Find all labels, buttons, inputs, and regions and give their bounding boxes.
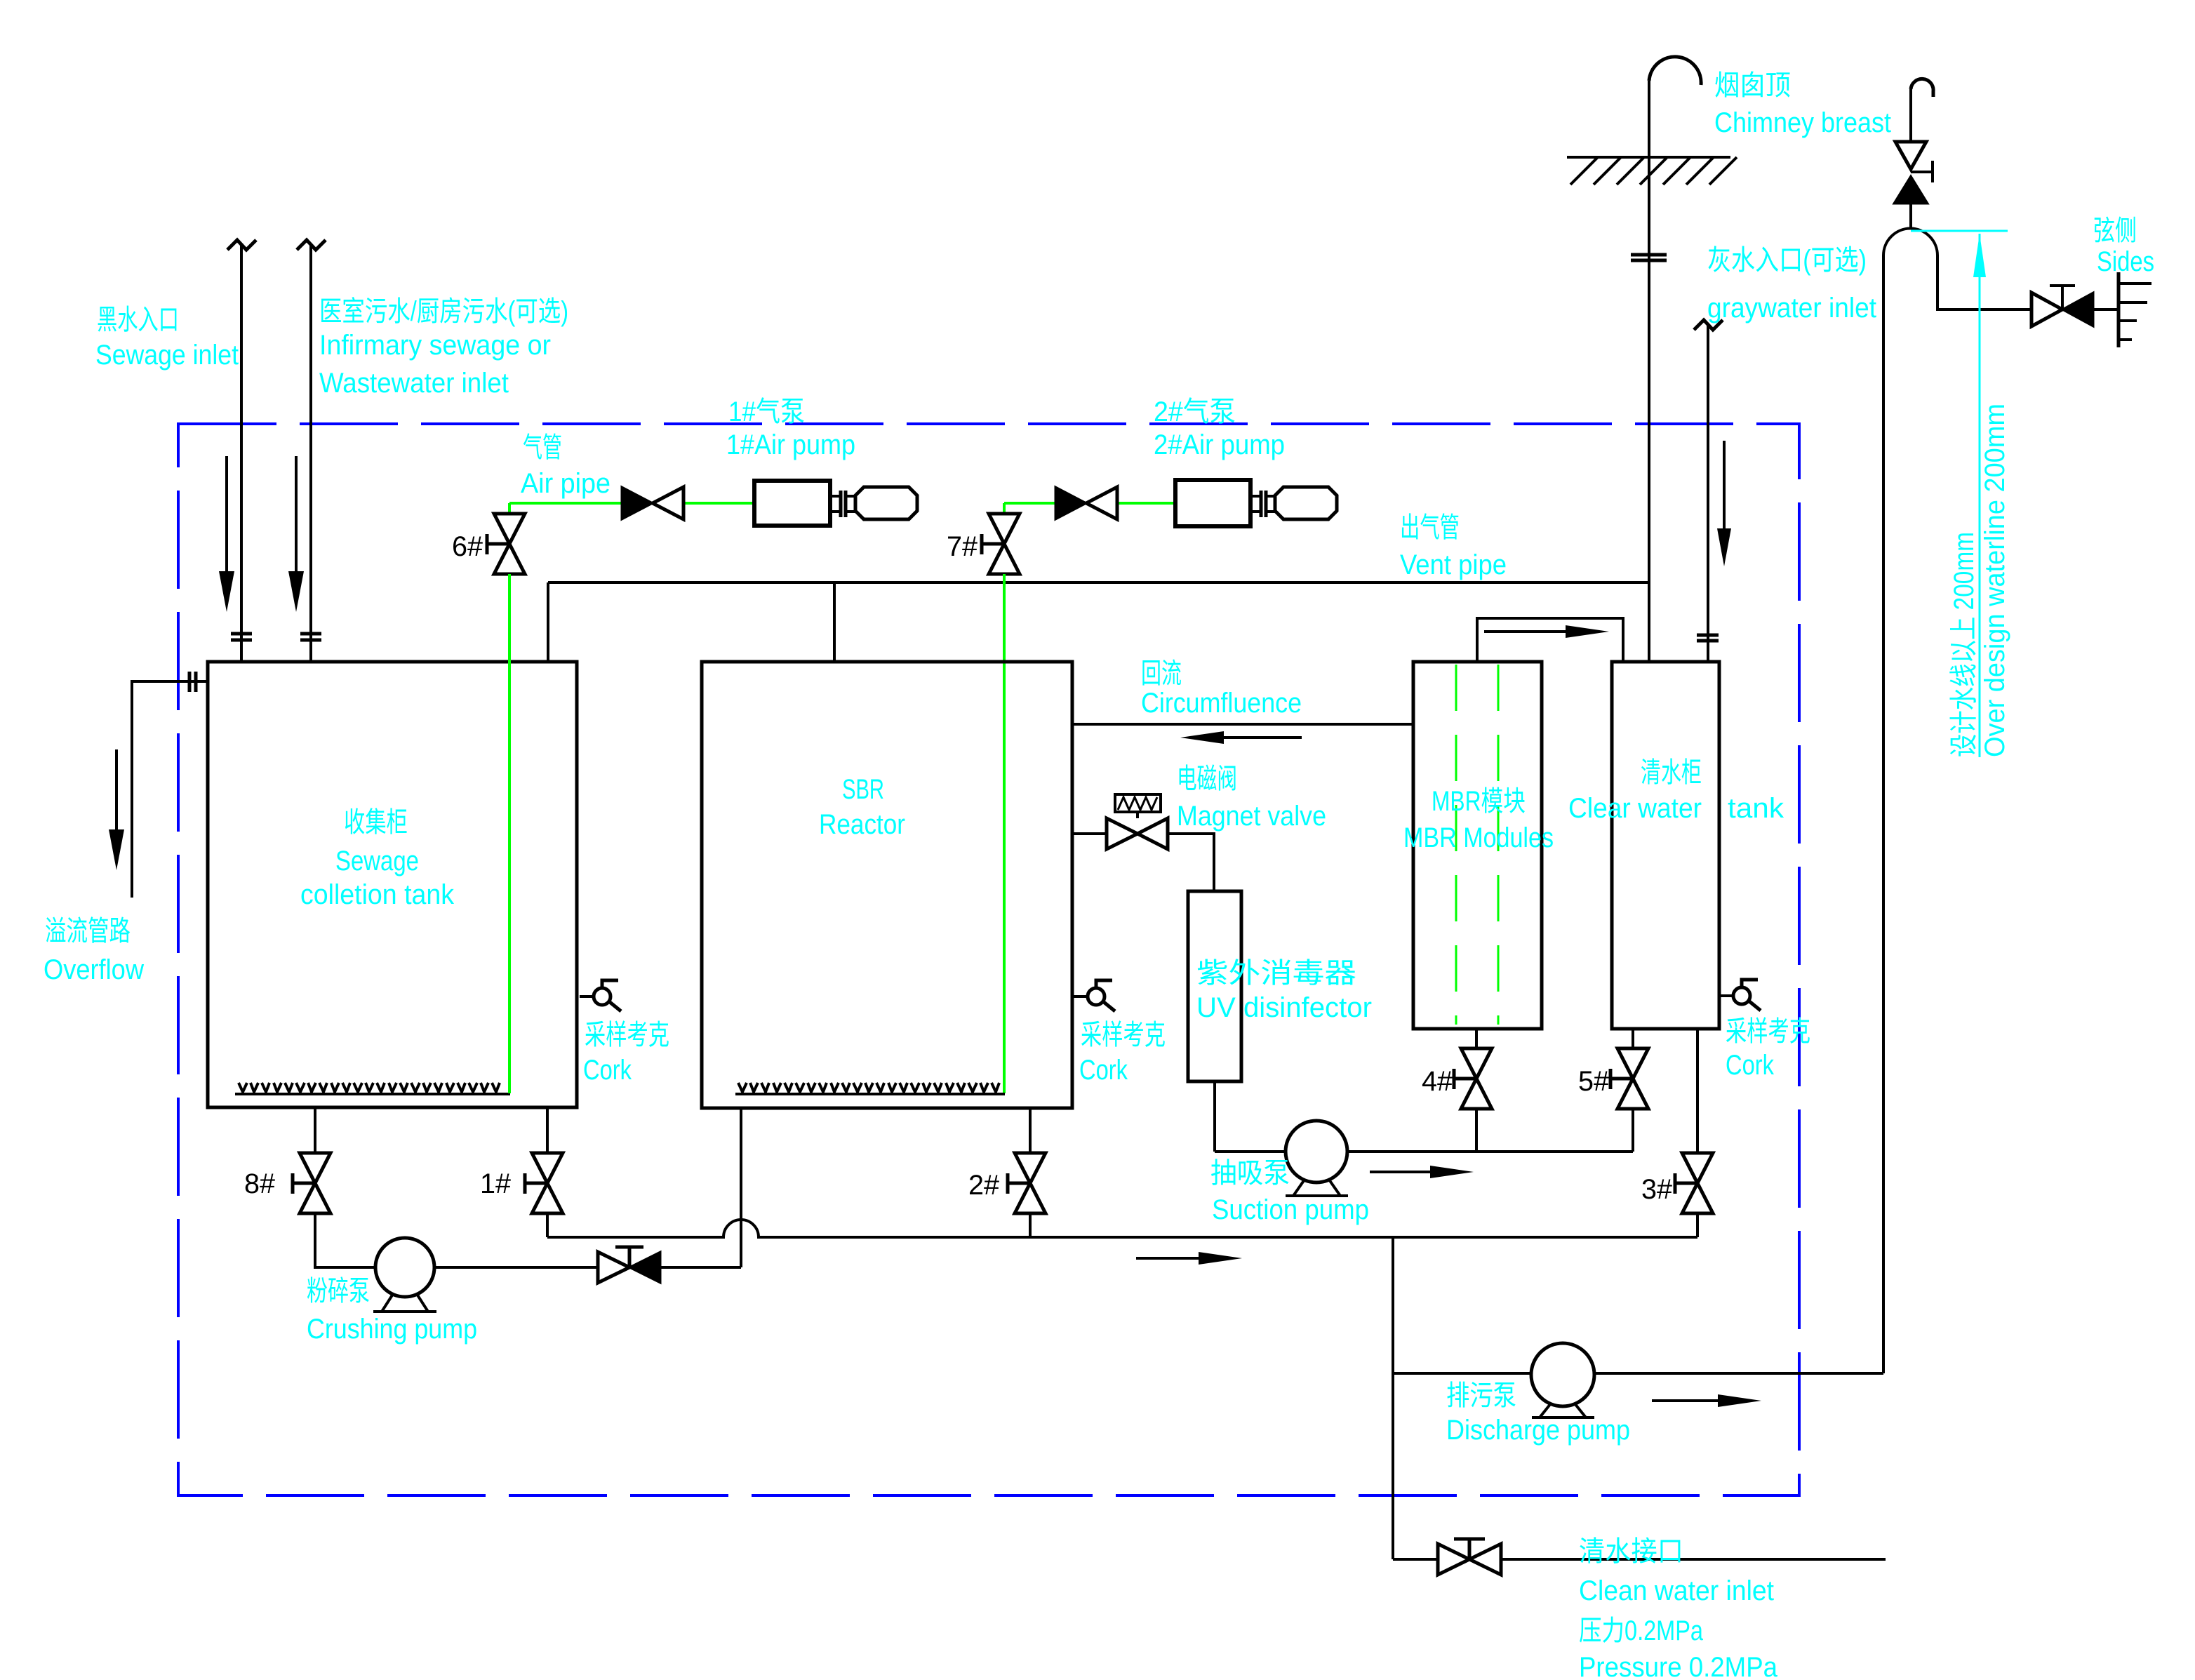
svg-text:灰水入口(可选): 灰水入口(可选) <box>1707 245 1867 276</box>
valve 7# <box>989 514 1020 574</box>
svg-text:Circumfluence: Circumfluence <box>1141 688 1302 719</box>
1# air pump coupling <box>830 496 855 512</box>
pipe: sewage inlet (black water) <box>240 246 243 662</box>
svg-text:SBR: SBR <box>842 774 884 805</box>
pipe: discharge drop from main header <box>1392 1237 1394 1559</box>
valve 3# <box>1682 1153 1713 1213</box>
svg-text:粉碎泵: 粉碎泵 <box>307 1276 370 1307</box>
discharge pump <box>1531 1343 1594 1406</box>
svg-text:Discharge pump: Discharge pump <box>1446 1415 1630 1446</box>
diffuser strip at bottom of collection tank <box>235 1093 510 1095</box>
crushing pump <box>375 1238 434 1297</box>
svg-text:Wastewater inlet: Wastewater inlet <box>319 368 509 399</box>
svg-text:1#: 1# <box>480 1168 512 1199</box>
sampling cock at x=2450 <box>1719 994 1733 997</box>
svg-text:2#Air pump: 2#Air pump <box>1154 429 1285 460</box>
valve 4# riser <box>1475 1029 1478 1152</box>
tank: sewage collection tank <box>208 662 577 1107</box>
flow arrow after suction pump <box>1370 1171 1435 1173</box>
equipment boundary (blue dashed border) <box>178 424 1799 1495</box>
tank: MBR modules <box>1413 662 1542 1029</box>
pipe: SBR feed drop (from crushing loop) <box>740 1108 742 1267</box>
pipe: graywater inlet <box>1707 326 1709 662</box>
svg-text:医室污水/厨房污水(可选): 医室污水/厨房污水(可选) <box>319 296 568 327</box>
svg-text:Cork: Cork <box>1726 1050 1775 1081</box>
ship side discharge valve (right wedge filled) <box>2031 293 2062 326</box>
flow arrow on circumfluence (left) <box>1214 736 1302 739</box>
pipe: suction line <box>1215 1150 1633 1153</box>
svg-text:Clean water inlet: Clean water inlet <box>1579 1575 1774 1606</box>
diffuser strip at bottom of SBR <box>735 1093 1005 1095</box>
flange on wastewater inlet pipe <box>300 634 321 640</box>
flange on sewage inlet pipe <box>231 634 252 640</box>
svg-text:电磁阀: 电磁阀 <box>1177 764 1237 794</box>
pipe: magnet valve to UV disinfector <box>1168 834 1214 891</box>
svg-text:1#气泵: 1#气泵 <box>728 396 805 427</box>
valve 4# <box>1461 1048 1492 1109</box>
svg-text:收集柜: 收集柜 <box>344 807 408 838</box>
svg-text:采样考克: 采样考克 <box>1081 1020 1166 1051</box>
svg-text:2#: 2# <box>968 1170 1000 1201</box>
check valve after crushing pump (right wedge filled) <box>598 1252 629 1283</box>
svg-text:Suction pump: Suction pump <box>1212 1194 1369 1225</box>
pipe: crushing pump discharge <box>434 1266 741 1269</box>
pipe: chimney vent riser <box>1648 81 1650 662</box>
flow arrow after discharge pump <box>1652 1399 1721 1402</box>
pipe: overboard riser <box>1882 255 1885 1373</box>
ship side (hull) symbol <box>2117 272 2121 347</box>
svg-text:Air pipe: Air pipe <box>521 468 611 499</box>
pipe: infirmary/kitchen wastewater inlet <box>309 246 312 662</box>
svg-text:2#气泵: 2#气泵 <box>1154 396 1236 427</box>
pipe: MBR outlet loop to clear water tank <box>1477 618 1623 662</box>
flow arrow on main header <box>1136 1257 1201 1260</box>
pipe: main transfer header with crossover bridge <box>547 1220 1697 1237</box>
svg-text:采样考克: 采样考克 <box>1726 1016 1810 1047</box>
valve 2# <box>1015 1153 1046 1213</box>
svg-text:MBR Modules: MBR Modules <box>1403 822 1554 853</box>
valve on 2# air pump line (left wedge filled) <box>1055 487 1086 519</box>
svg-text:7#: 7# <box>947 531 978 562</box>
valve 6# <box>494 514 525 574</box>
svg-text:UV disinfector: UV disinfector <box>1196 992 1372 1023</box>
svg-text:8#: 8# <box>244 1168 276 1199</box>
svg-text:Cork: Cork <box>1079 1055 1128 1086</box>
svg-text:Cork: Cork <box>583 1055 632 1086</box>
chimney breast hook <box>1911 79 1933 97</box>
svg-text:tank: tank <box>1728 793 1784 824</box>
flow arrow on overflow <box>115 749 118 831</box>
tank: SBR reactor <box>702 662 1072 1108</box>
tank: clear water tank <box>1612 662 1719 1029</box>
svg-text:6#: 6# <box>452 531 483 562</box>
valve 1# riser from collection tank <box>546 1107 549 1237</box>
svg-text:Overflow: Overflow <box>44 954 144 985</box>
svg-text:抽吸泵: 抽吸泵 <box>1210 1158 1290 1189</box>
suction pump <box>1286 1121 1347 1182</box>
break symbol on wastewater inlet pipe <box>297 240 326 250</box>
UV disinfector vessel <box>1188 891 1241 1081</box>
break symbol on sewage inlet pipe <box>227 240 256 250</box>
svg-text:Sewage: Sewage <box>335 846 419 876</box>
svg-text:Pressure 0.2MPa: Pressure 0.2MPa <box>1579 1652 1778 1680</box>
green drop to valve 7# <box>1003 503 1006 514</box>
vent riser from collection tank <box>547 582 549 662</box>
2# air pump coupling <box>1250 496 1275 512</box>
svg-text:回流: 回流 <box>1141 658 1182 689</box>
svg-text:采样考克: 采样考克 <box>585 1020 669 1051</box>
svg-text:排污泵: 排污泵 <box>1446 1380 1516 1411</box>
svg-text:清水柜: 清水柜 <box>1641 757 1702 788</box>
pipe: UV disinfector outlet <box>1213 1081 1216 1152</box>
svg-text:溢流管路: 溢流管路 <box>45 916 131 947</box>
vent riser from SBR reactor <box>833 582 836 662</box>
svg-text:Reactor: Reactor <box>819 809 905 840</box>
svg-text:清水接口: 清水接口 <box>1579 1536 1683 1567</box>
flow arrow on graywater inlet <box>1723 441 1726 530</box>
valve 3# riser from clear water tank <box>1696 1029 1699 1237</box>
valve 8# <box>300 1153 331 1213</box>
flow arrow into tank (wastewater inlet) <box>295 456 298 573</box>
valve 2# riser from SBR <box>1029 1108 1032 1237</box>
svg-text:MBR模块: MBR模块 <box>1432 786 1526 817</box>
svg-text:黑水入口: 黑水入口 <box>97 305 179 335</box>
valve 5# <box>1617 1048 1648 1109</box>
clean water inlet valve <box>1438 1544 1501 1575</box>
vented loop at top of riser <box>1883 228 1937 255</box>
pipe: clean water inlet line <box>1393 1558 1886 1561</box>
chimney top hook <box>1649 57 1701 85</box>
svg-text:弦侧: 弦侧 <box>2093 215 2137 246</box>
svg-text:Over design waterline 200mm: Over design waterline 200mm <box>1980 404 2010 757</box>
svg-text:Infirmary sewage or: Infirmary sewage or <box>319 330 551 361</box>
svg-text:气管: 气管 <box>523 432 562 463</box>
green drop to valve 6# <box>508 503 511 514</box>
1# air pump body <box>754 481 830 526</box>
1# air pump silencer (octagon) <box>855 487 917 519</box>
svg-text:3#: 3# <box>1641 1174 1673 1205</box>
2# air pump silencer (octagon) <box>1275 487 1337 519</box>
svg-text:5#: 5# <box>1578 1066 1610 1097</box>
flow arrow into tank (sewage inlet) <box>225 456 228 573</box>
flange on overflow pipe <box>189 672 196 692</box>
deck line at chimney penetration <box>1567 156 1730 159</box>
green air drop pipe into collection tank <box>508 574 511 1093</box>
svg-text:烟囱顶: 烟囱顶 <box>1714 70 1791 101</box>
svg-text:graywater inlet: graywater inlet <box>1707 293 1876 324</box>
waterline dimension line with arrow (cyan) <box>1979 234 1981 757</box>
svg-text:1#Air pump: 1#Air pump <box>726 429 855 460</box>
MBR membranes (green dashed) <box>1456 665 1498 1025</box>
valve 5# riser <box>1632 1029 1634 1152</box>
pipe: overboard line to ship side <box>1937 255 2119 309</box>
pipe: air pipe to SBR (green) <box>1004 502 1175 505</box>
design waterline tick (cyan) <box>1911 230 2008 232</box>
svg-text:出气管: 出气管 <box>1400 512 1460 543</box>
pipe: discharge pump line <box>1393 1372 1883 1375</box>
vent riser drop into clear water tank <box>1648 582 1650 662</box>
svg-text:Vent pipe: Vent pipe <box>1400 549 1507 580</box>
svg-text:Crushing pump: Crushing pump <box>307 1314 477 1345</box>
magnet valve <box>1107 818 1168 849</box>
svg-text:Chimney breast: Chimney breast <box>1714 107 1891 138</box>
svg-text:压力0.2MPa: 压力0.2MPa <box>1579 1615 1704 1646</box>
chimney breast valve (screw-down non-return) <box>1909 204 1912 229</box>
pipe: air pipe to collection tank (green) <box>509 502 754 505</box>
valve 8# riser from collection tank <box>315 1107 375 1267</box>
deck hatching <box>1570 157 1737 185</box>
pipe: circumfluence return line <box>1074 723 1413 726</box>
pipe: overflow line from collection tank <box>132 681 208 898</box>
valve on 1# air pump line (left wedge filled) <box>622 487 653 519</box>
green air drop pipe into SBR <box>1003 574 1006 1093</box>
pipe: SBR outlet to magnet valve <box>1074 832 1107 835</box>
flow arrow on MBR outlet <box>1484 630 1568 633</box>
valve 1# <box>532 1153 563 1213</box>
sampling cock at x=1530 <box>1074 995 1088 998</box>
pipe: vent pipe header <box>548 581 1649 584</box>
svg-text:colletion tank: colletion tank <box>300 879 455 910</box>
svg-text:Clear water: Clear water <box>1568 793 1702 824</box>
svg-text:设计水线以上 200mm: 设计水线以上 200mm <box>1949 532 1980 757</box>
svg-text:Magnet valve: Magnet valve <box>1177 801 1326 832</box>
svg-text:紫外消毒器: 紫外消毒器 <box>1196 958 1356 989</box>
svg-text:Sewage inlet: Sewage inlet <box>95 340 239 371</box>
break symbol on graywater pipe <box>1694 320 1723 330</box>
svg-text:Sides: Sides <box>2097 246 2154 277</box>
2# air pump body <box>1175 480 1250 526</box>
sampling cock at x=826 <box>580 995 594 998</box>
flange on graywater pipe <box>1697 635 1719 641</box>
flange on chimney riser <box>1631 255 1667 260</box>
svg-text:4#: 4# <box>1422 1066 1453 1097</box>
